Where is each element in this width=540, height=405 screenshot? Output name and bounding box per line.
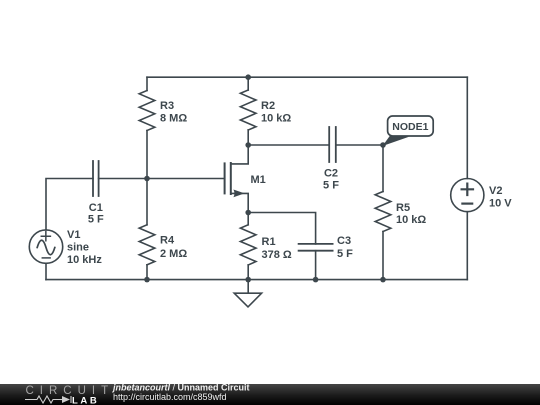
svg-text:C3: C3 (337, 235, 351, 247)
capacitor C1 (93, 161, 99, 196)
node dot bottom R5 (380, 277, 386, 283)
svg-text:C1: C1 (89, 202, 103, 214)
wire right rail to V2 top (466, 77, 468, 178)
wire R2 bottom lead (247, 130, 249, 145)
node NODE1 flag (383, 116, 434, 146)
svg-text:378 Ω: 378 Ω (262, 249, 292, 261)
svg-text:V2: V2 (489, 185, 502, 197)
wire R5 top lead (382, 145, 384, 192)
svg-text:R1: R1 (262, 236, 276, 248)
wire C1 to gate (99, 178, 225, 180)
svg-text:CIRCUIT: CIRCUIT (26, 385, 115, 397)
wire bottom rail (46, 279, 467, 281)
wire R2 top lead (247, 77, 249, 90)
svg-text:10 kΩ: 10 kΩ (396, 214, 426, 226)
resistor R3 (139, 91, 155, 131)
svg-text:NODE1: NODE1 (392, 121, 428, 133)
wire top rail (147, 76, 467, 78)
svg-text:8 MΩ: 8 MΩ (160, 113, 187, 125)
wire V2 bottom to bottom rail (466, 212, 468, 280)
capacitor C3 (299, 244, 333, 251)
node dot source (245, 210, 251, 216)
resistor R5 (375, 192, 391, 232)
svg-text:10 kΩ: 10 kΩ (261, 113, 291, 125)
svg-text:10 V: 10 V (489, 198, 512, 210)
node dot gate (144, 176, 150, 182)
resistor R2 (240, 90, 256, 130)
node dot bottom R4 (144, 277, 150, 283)
svg-text:LAB: LAB (72, 396, 99, 405)
wire source node to R1 (247, 213, 249, 225)
svg-text:C2: C2 (324, 168, 338, 180)
ground (234, 280, 261, 307)
svg-text:sine: sine (67, 242, 89, 254)
svg-text:10 kHz: 10 kHz (67, 254, 102, 266)
resistor R1 (240, 225, 256, 265)
source V1 (29, 230, 62, 263)
node dot bottom R1 (245, 277, 251, 283)
wire C2 to NODE1 (336, 144, 383, 146)
wire C3 bottom (315, 251, 317, 280)
node dot top rail (245, 74, 251, 80)
svg-text:5 F: 5 F (88, 214, 104, 226)
wire V1 top to C1 (46, 179, 93, 231)
svg-text:5 F: 5 F (323, 180, 339, 192)
svg-text:2 MΩ: 2 MΩ (160, 248, 187, 260)
wire R1 bottom lead (247, 265, 249, 280)
svg-text:R2: R2 (261, 100, 275, 112)
wire R5 bottom lead (382, 232, 384, 280)
svg-text:R5: R5 (396, 202, 410, 214)
wire V1 bottom (45, 263, 47, 279)
source V2 (451, 179, 484, 212)
svg-text:R3: R3 (160, 100, 174, 112)
node NODE1 dot (380, 142, 386, 148)
svg-text:M1: M1 (251, 174, 266, 186)
wire R3 top lead (146, 77, 148, 90)
svg-text:V1: V1 (67, 229, 80, 241)
capacitor C2 (329, 127, 336, 162)
resistor R4 (139, 225, 155, 265)
node dot drain (245, 142, 251, 148)
wire drain node to C2 (248, 144, 329, 146)
svg-text:http://circuitlab.com/c859wfd: http://circuitlab.com/c859wfd (113, 392, 227, 402)
logo diode (62, 396, 70, 403)
svg-text:5 F: 5 F (337, 248, 353, 260)
wire source node to C3 (248, 213, 315, 244)
wire R3 bottom lead (146, 131, 148, 179)
logo wire zigzag (25, 396, 71, 403)
svg-text:R4: R4 (160, 235, 175, 247)
node dot bottom C3 (313, 277, 319, 283)
wire R4 top lead (146, 179, 148, 225)
wire R4 bottom lead (146, 265, 148, 280)
transistor M1 (225, 145, 249, 213)
footer bar (0, 384, 540, 405)
